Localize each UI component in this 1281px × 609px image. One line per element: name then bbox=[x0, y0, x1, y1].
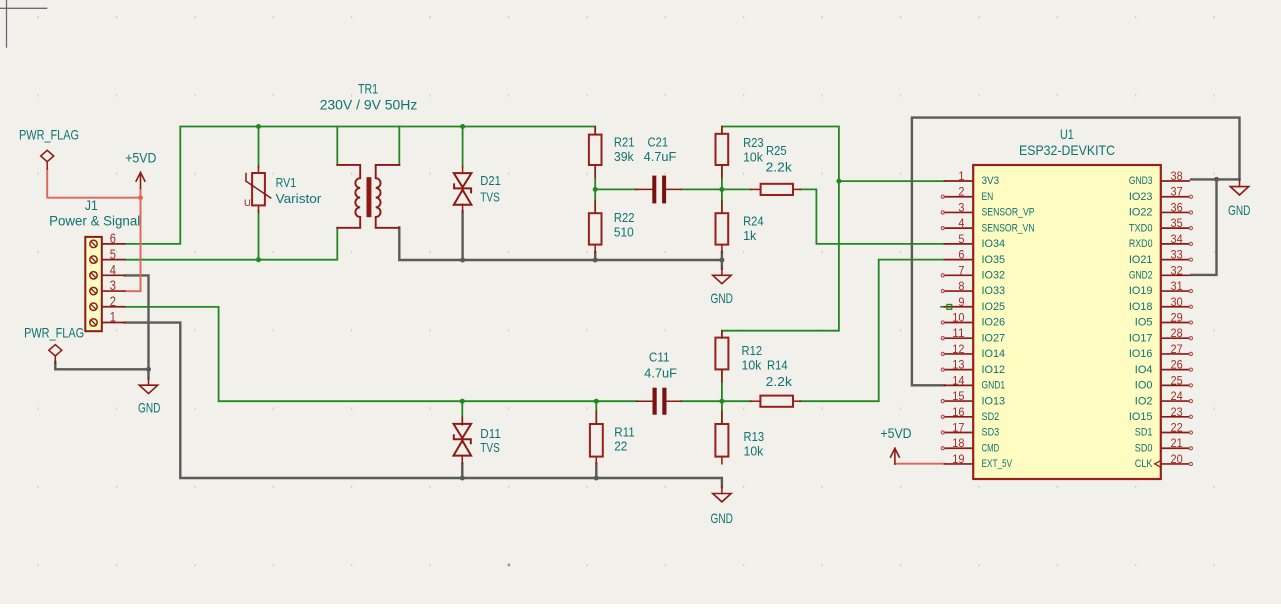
IC U1 ESP32-DEVKITC body bbox=[973, 165, 1161, 479]
pin 9 no-connect square bbox=[947, 305, 952, 310]
svg-text:2.2k: 2.2k bbox=[766, 161, 793, 175]
wire R14 right to ESP32 IO35 bbox=[800, 260, 945, 402]
svg-text:4.7uF: 4.7uF bbox=[644, 367, 677, 381]
svg-text:30: 30 bbox=[1171, 295, 1183, 309]
svg-text:TR1: TR1 bbox=[358, 80, 378, 96]
wire PWR_FLAG1 to +5VD junction bbox=[47, 169, 140, 198]
svg-text:SD3: SD3 bbox=[982, 427, 1000, 439]
svg-text:SENSOR_VN: SENSOR_VN bbox=[982, 222, 1035, 234]
svg-text:IO22: IO22 bbox=[1129, 207, 1153, 219]
svg-text:3: 3 bbox=[958, 200, 964, 214]
wire transformer secondary bottom gray rail bbox=[399, 228, 722, 269]
wire R11 bottom drop bbox=[595, 464, 597, 479]
junction 3V3 bbox=[836, 179, 841, 184]
svg-text:230V / 9V 50Hz: 230V / 9V 50Hz bbox=[320, 97, 418, 113]
resistor R11 bbox=[590, 424, 603, 457]
svg-text:28: 28 bbox=[1171, 326, 1183, 340]
wire ESP32 pin9 stub bbox=[941, 306, 953, 308]
svg-text:U1: U1 bbox=[1060, 126, 1074, 142]
svg-text:27: 27 bbox=[1171, 342, 1183, 356]
junction D21 top bbox=[460, 124, 465, 129]
svg-text:14: 14 bbox=[952, 373, 964, 387]
svg-text:4: 4 bbox=[110, 262, 116, 278]
svg-text:4.7uF: 4.7uF bbox=[644, 150, 677, 164]
svg-text:IO13: IO13 bbox=[982, 395, 1006, 407]
junction R24 GND bbox=[719, 258, 724, 263]
J1 pin stubs bbox=[102, 243, 125, 245]
wire D11 top drop bbox=[461, 401, 463, 424]
svg-text:31: 31 bbox=[1171, 279, 1183, 293]
svg-text:R13: R13 bbox=[744, 430, 765, 444]
wire D21 bottom drop bbox=[461, 212, 463, 261]
svg-text:IO27: IO27 bbox=[982, 332, 1006, 344]
svg-text:16: 16 bbox=[952, 405, 964, 419]
ground near J1 bbox=[148, 378, 150, 385]
svg-text:C21: C21 bbox=[648, 136, 669, 150]
svg-text:4: 4 bbox=[958, 216, 964, 230]
junction D21 gray rail bbox=[460, 258, 465, 263]
resistor R25 bbox=[761, 184, 793, 195]
svg-text:IO25: IO25 bbox=[982, 301, 1006, 313]
svg-text:GND2: GND2 bbox=[1129, 270, 1153, 282]
svg-text:22: 22 bbox=[1171, 421, 1183, 435]
svg-text:22: 22 bbox=[614, 440, 627, 454]
svg-text:38: 38 bbox=[1171, 169, 1183, 183]
resistor R22 bbox=[589, 213, 602, 244]
svg-text:EXT_5V: EXT_5V bbox=[982, 458, 1013, 470]
CLK clock mark bbox=[1155, 461, 1161, 468]
TVS diode D21 bbox=[454, 173, 472, 187]
svg-text:R11: R11 bbox=[614, 426, 635, 440]
svg-text:IO12: IO12 bbox=[982, 364, 1006, 376]
origin crosshair bbox=[0, 7, 47, 9]
svg-text:GND: GND bbox=[711, 510, 733, 526]
svg-text:6: 6 bbox=[958, 248, 964, 262]
svg-text:10k: 10k bbox=[743, 150, 764, 164]
component pin stubs bbox=[594, 127, 596, 135]
wire node C to R14 left bbox=[722, 400, 751, 402]
svg-text:39k: 39k bbox=[614, 150, 635, 164]
junction R11 top bbox=[594, 399, 599, 404]
svg-text:23: 23 bbox=[1171, 405, 1183, 419]
svg-text:ESP32-DEVKITC: ESP32-DEVKITC bbox=[1019, 142, 1115, 158]
wire node A to C21 left bbox=[595, 188, 637, 190]
svg-text:11: 11 bbox=[952, 326, 965, 340]
svg-text:3V3: 3V3 bbox=[982, 175, 1000, 187]
svg-text:7: 7 bbox=[958, 263, 964, 277]
svg-text:CMD: CMD bbox=[982, 442, 1000, 454]
svg-text:TVS: TVS bbox=[480, 191, 500, 205]
svg-text:8: 8 bbox=[958, 279, 964, 293]
svg-text:R21: R21 bbox=[614, 136, 635, 150]
wire R12-R13 column bbox=[721, 370, 723, 425]
svg-text:+5VD: +5VD bbox=[125, 149, 156, 165]
svg-text:IO14: IO14 bbox=[982, 348, 1006, 360]
svg-text:D11: D11 bbox=[480, 427, 501, 441]
wire R23-R24 column bbox=[721, 165, 723, 213]
svg-text:TXD0: TXD0 bbox=[1129, 222, 1153, 234]
svg-text:33: 33 bbox=[1171, 248, 1183, 262]
transformer TR1 bbox=[337, 165, 360, 228]
wire R11 top drop bbox=[595, 401, 597, 424]
power flag PWR_FLAG2 bbox=[49, 345, 62, 356]
capacitor C21 bbox=[652, 176, 656, 204]
svg-text:GND: GND bbox=[1228, 202, 1250, 218]
svg-text:IO26: IO26 bbox=[982, 317, 1006, 329]
wire +5VD to J1 pin3 bbox=[125, 189, 141, 291]
svg-text:IO35: IO35 bbox=[982, 254, 1006, 266]
svg-text:29: 29 bbox=[1171, 310, 1183, 324]
power symbol +5VD near U1 bbox=[894, 448, 896, 464]
svg-text:R23: R23 bbox=[743, 136, 764, 150]
junction node B bbox=[719, 187, 724, 192]
svg-text:IO5: IO5 bbox=[1135, 317, 1153, 329]
ground right of U1 bbox=[1239, 179, 1241, 186]
svg-text:GND: GND bbox=[711, 290, 733, 306]
resistor R13 bbox=[715, 424, 728, 457]
wire R24 bottom drop bbox=[721, 252, 723, 260]
svg-text:26: 26 bbox=[1171, 358, 1183, 372]
svg-text:SD2: SD2 bbox=[982, 411, 1000, 423]
svg-text:CLK: CLK bbox=[1135, 458, 1153, 470]
svg-text:IO18: IO18 bbox=[1129, 301, 1153, 313]
svg-text:1k: 1k bbox=[743, 229, 757, 243]
junction node C bbox=[719, 399, 724, 404]
junction R22 gray rail bbox=[593, 258, 598, 263]
svg-text:R14: R14 bbox=[767, 359, 788, 373]
svg-text:510: 510 bbox=[614, 226, 634, 240]
TVS diode D11 bbox=[454, 424, 472, 438]
wire R21-R22 column bbox=[594, 165, 596, 213]
wire D11 bottom drop bbox=[461, 464, 463, 479]
svg-text:2.2k: 2.2k bbox=[766, 375, 793, 389]
svg-text:10k: 10k bbox=[742, 359, 763, 373]
wire node B to R25 left bbox=[722, 188, 751, 190]
svg-text:35: 35 bbox=[1171, 216, 1183, 230]
resistor R21 bbox=[589, 135, 602, 165]
svg-text:2: 2 bbox=[958, 185, 964, 199]
svg-text:D21: D21 bbox=[480, 174, 501, 188]
svg-text:SD0: SD0 bbox=[1135, 442, 1153, 454]
wire J1 pin1 to bottom GND rail bbox=[125, 323, 722, 487]
connector J1 bbox=[85, 237, 102, 331]
svg-text:PWR_FLAG: PWR_FLAG bbox=[19, 127, 79, 143]
ground below R24 bbox=[721, 269, 723, 276]
svg-text:37: 37 bbox=[1171, 185, 1183, 199]
U1 right unconnected pin circles bbox=[1189, 195, 1192, 198]
svg-text:U: U bbox=[244, 198, 251, 209]
svg-text:IO19: IO19 bbox=[1129, 285, 1153, 297]
wire transformer primary top drop bbox=[336, 127, 338, 165]
wire R22 bottom drop bbox=[594, 252, 596, 260]
junction D11 top bbox=[460, 399, 465, 404]
svg-text:PWR_FLAG: PWR_FLAG bbox=[24, 325, 84, 341]
resistor R24 bbox=[716, 213, 729, 244]
svg-text:13: 13 bbox=[952, 358, 964, 372]
wire ESP32 GND1 loop bbox=[912, 118, 1240, 386]
junction +5VD flag bbox=[138, 195, 143, 200]
svg-text:5: 5 bbox=[958, 232, 964, 246]
svg-text:SENSOR_VP: SENSOR_VP bbox=[982, 207, 1035, 219]
svg-text:EN: EN bbox=[982, 191, 994, 203]
wire PWR_FLAG2 to GND junction bbox=[55, 362, 148, 369]
svg-text:24: 24 bbox=[1171, 389, 1183, 403]
svg-text:SD1: SD1 bbox=[1135, 427, 1153, 439]
svg-text:IO15: IO15 bbox=[1129, 411, 1153, 423]
ground bottom rail bbox=[721, 487, 723, 494]
svg-text:GND: GND bbox=[138, 400, 160, 416]
wire ESP32 GND2 riser bbox=[1191, 179, 1217, 275]
resistor R14 bbox=[760, 396, 793, 407]
svg-text:GND1: GND1 bbox=[982, 380, 1006, 392]
svg-text:12: 12 bbox=[952, 342, 964, 356]
svg-text:10k: 10k bbox=[744, 445, 765, 459]
svg-text:IO21: IO21 bbox=[1129, 254, 1153, 266]
capacitor C11 bbox=[653, 388, 657, 415]
svg-text:Power & Signal: Power & Signal bbox=[49, 212, 140, 228]
U1 right pin stubs bbox=[1161, 180, 1189, 182]
svg-text:R24: R24 bbox=[743, 214, 764, 228]
svg-text:Varistor: Varistor bbox=[276, 192, 322, 206]
svg-text:IO16: IO16 bbox=[1129, 348, 1153, 360]
svg-text:RXD0: RXD0 bbox=[1129, 238, 1153, 250]
svg-text:25: 25 bbox=[1171, 373, 1183, 387]
svg-text:6: 6 bbox=[110, 230, 116, 246]
svg-text:R22: R22 bbox=[614, 211, 635, 225]
svg-text:C11: C11 bbox=[649, 351, 670, 365]
svg-text:IO2: IO2 bbox=[1135, 395, 1153, 407]
junction RV1 top bbox=[256, 124, 261, 129]
varistor RV1 bbox=[252, 173, 265, 205]
svg-text:RV1: RV1 bbox=[276, 176, 297, 190]
wire D21 top drop bbox=[462, 127, 464, 167]
wire 3V3 to ESP32 pin1 bbox=[839, 180, 945, 182]
svg-text:IO23: IO23 bbox=[1129, 191, 1153, 203]
junction GND near J1 bbox=[146, 367, 151, 372]
svg-text:21: 21 bbox=[1171, 436, 1183, 450]
junction node A bbox=[593, 187, 598, 192]
wire J1 pin2 to C11 left rail bbox=[125, 307, 637, 401]
svg-text:17: 17 bbox=[952, 421, 964, 435]
wire top rail R23 to 3V3 column and down to R12 bbox=[722, 127, 839, 338]
wire +5VD to ESP32 EXT_5V bbox=[895, 463, 945, 465]
svg-text:15: 15 bbox=[952, 389, 964, 403]
svg-text:34: 34 bbox=[1171, 232, 1183, 246]
svg-text:IO0: IO0 bbox=[1135, 380, 1153, 392]
svg-text:36: 36 bbox=[1171, 200, 1183, 214]
svg-text:IO17: IO17 bbox=[1129, 332, 1153, 344]
U1 left pin stubs bbox=[945, 180, 974, 182]
svg-text:1: 1 bbox=[958, 169, 964, 183]
svg-text:J1: J1 bbox=[85, 197, 98, 213]
svg-text:2: 2 bbox=[110, 293, 116, 309]
svg-text:1: 1 bbox=[110, 309, 116, 325]
svg-text:+5VD: +5VD bbox=[880, 425, 911, 441]
svg-text:IO33: IO33 bbox=[982, 285, 1006, 297]
power symbol +5VD near J1 bbox=[140, 173, 142, 189]
svg-text:IO4: IO4 bbox=[1135, 364, 1153, 376]
svg-text:3: 3 bbox=[110, 277, 116, 293]
wire RV1 column bbox=[258, 127, 260, 168]
junction R11 bottom rail bbox=[594, 476, 599, 481]
svg-text:9: 9 bbox=[958, 295, 964, 309]
svg-text:18: 18 bbox=[952, 436, 964, 450]
svg-text:IO32: IO32 bbox=[982, 270, 1006, 282]
junction D11 bottom rail bbox=[460, 476, 465, 481]
svg-text:R25: R25 bbox=[766, 144, 787, 158]
svg-text:19: 19 bbox=[952, 452, 964, 466]
wire ESP32 GND3 to GND symbol bbox=[1191, 178, 1240, 180]
wire C11 right to node C bbox=[681, 400, 722, 402]
resistor R12 bbox=[715, 338, 728, 370]
junction RV1 bottom bbox=[256, 257, 261, 262]
wire transformer secondary top drop bbox=[398, 127, 400, 165]
svg-text:R12: R12 bbox=[742, 344, 763, 358]
svg-text:10: 10 bbox=[952, 310, 964, 324]
svg-text:TVS: TVS bbox=[480, 441, 500, 455]
wire J1 pin5 bottom rail to transformer primary bbox=[125, 228, 338, 260]
svg-text:GND3: GND3 bbox=[1129, 175, 1153, 187]
wire J1 pin4 to GND bbox=[125, 275, 149, 378]
power flag PWR_FLAG1 bbox=[41, 150, 54, 161]
wire C21 right to node B bbox=[681, 188, 722, 190]
wire +9V top rail from J1 pin6 to R21 bbox=[125, 127, 596, 244]
wire R25 right to ESP32 IO34 bbox=[800, 189, 945, 243]
U1 left unconnected pin circles bbox=[941, 195, 944, 198]
junction GND3 wire bbox=[1214, 177, 1219, 182]
svg-text:20: 20 bbox=[1171, 452, 1183, 466]
svg-text:32: 32 bbox=[1171, 263, 1183, 277]
svg-text:5: 5 bbox=[110, 246, 116, 262]
resistor R23 bbox=[716, 134, 729, 165]
svg-text:IO34: IO34 bbox=[982, 238, 1006, 250]
